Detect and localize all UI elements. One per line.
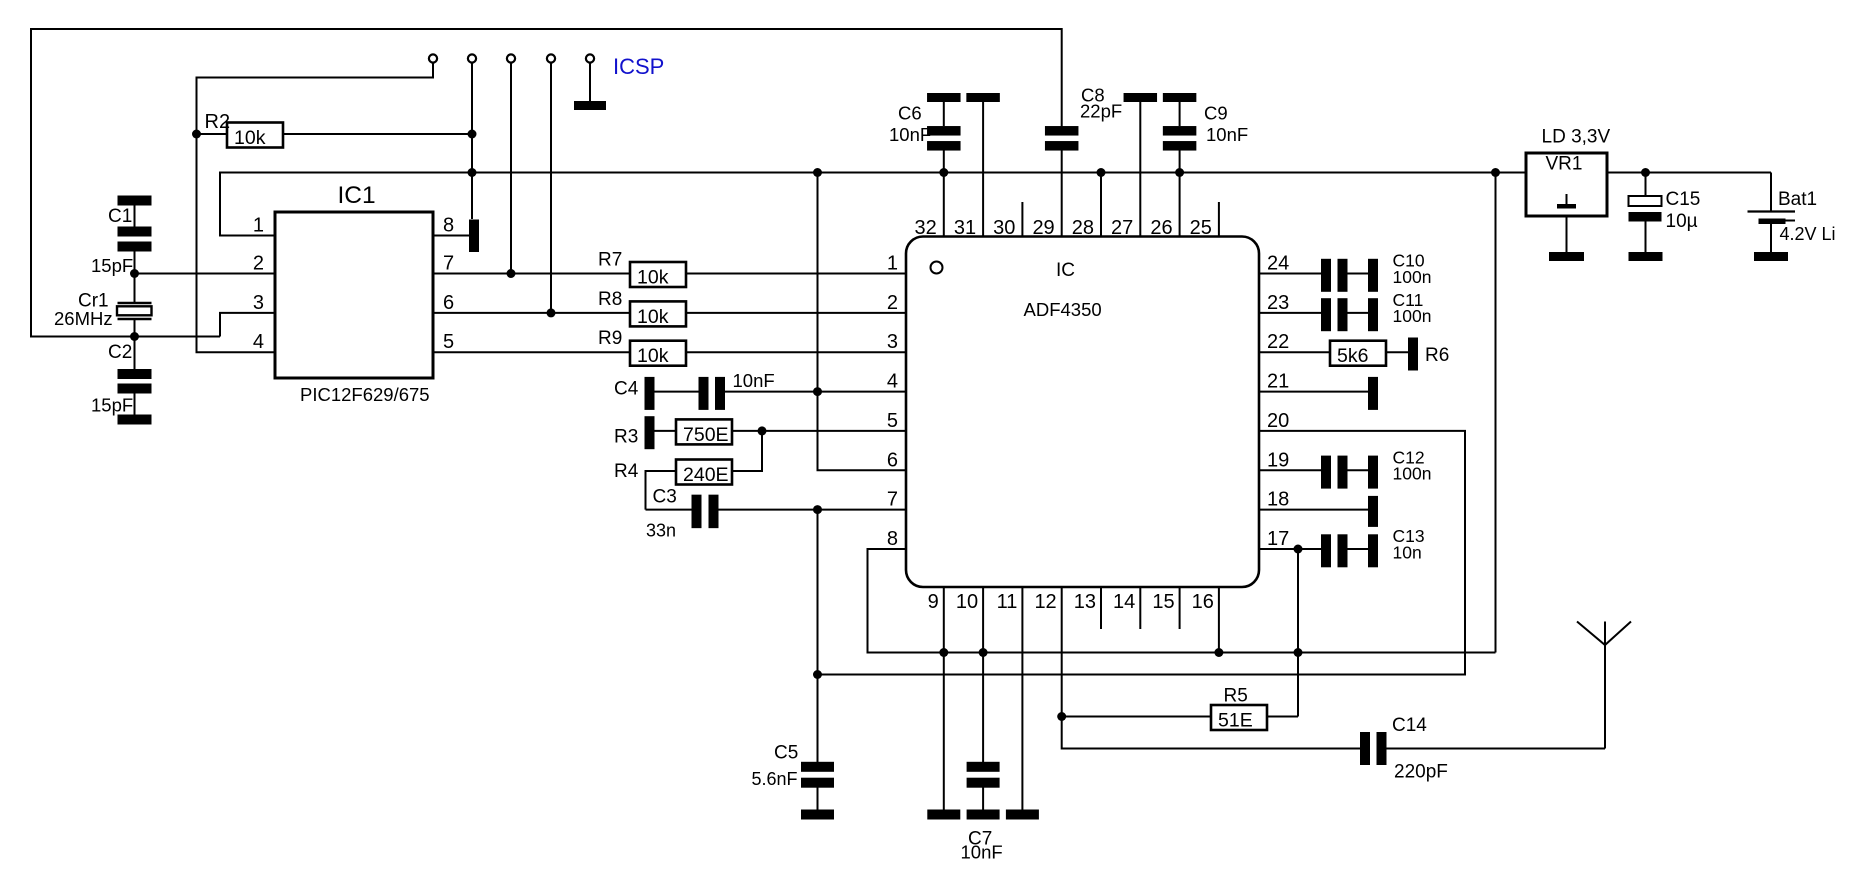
ground below VR1 — [1549, 252, 1584, 261]
svg-text:10k: 10k — [637, 306, 669, 328]
svg-text:R4: R4 — [614, 461, 639, 482]
wire R5 right — [1267, 716, 1298, 718]
wire 5k6 to bar — [1386, 351, 1408, 353]
ground ICSP — [574, 101, 606, 110]
ground right of C13 — [1368, 534, 1378, 567]
label C6 — [898, 103, 922, 124]
label C9 — [1204, 103, 1228, 124]
wire VR1 to battery — [1607, 172, 1771, 174]
pin ADF-4 number — [887, 371, 898, 393]
wire pin16 down — [1218, 587, 1220, 653]
pin1 marker circle — [931, 262, 943, 274]
wire R8 to ADF — [686, 312, 906, 314]
pin ADF-31 number — [954, 217, 976, 239]
power bar above C9 — [1163, 93, 1197, 102]
pin ADF-16 number — [1192, 591, 1214, 613]
wire C3 left — [646, 509, 692, 511]
pin ADF-11 number — [997, 591, 1018, 613]
ground below C5 — [801, 810, 834, 820]
label C1 value 15pF — [91, 255, 133, 276]
svg-text:19: 19 — [1267, 449, 1289, 471]
pin ADF-21 number — [1267, 371, 1289, 393]
capacitor C15 (electrolytic) — [1629, 196, 1662, 222]
svg-text:10: 10 — [956, 591, 978, 613]
pin IC1-5 number — [443, 331, 454, 353]
label Bat1 value 4.2V Li — [1780, 224, 1836, 244]
wire C10 to ground — [1348, 273, 1369, 275]
label C5 — [774, 743, 798, 764]
pin IC1-6 number — [443, 292, 454, 314]
svg-text:31: 31 — [954, 217, 976, 239]
wire line B to pin20 — [818, 431, 1466, 675]
svg-text:7: 7 — [887, 489, 898, 511]
regulator VR1 ground symbol — [1557, 194, 1576, 209]
node rail junction at pin28 riser — [1097, 168, 1106, 177]
svg-text:4: 4 — [253, 331, 264, 353]
svg-text:5: 5 — [443, 331, 454, 353]
svg-text:10n: 10n — [1393, 542, 1422, 562]
crystal Cr1 — [117, 303, 152, 319]
label C5 value 5.6nF — [752, 769, 798, 789]
wire C7 to ground — [982, 788, 984, 811]
svg-text:R8: R8 — [598, 289, 622, 310]
wire C6 to pin32 — [943, 151, 945, 237]
node XT1 junction — [130, 269, 139, 278]
node ICSP terminal 1 — [429, 54, 437, 62]
node junction C15 — [1641, 168, 1650, 177]
label LD 3,3V — [1542, 127, 1611, 148]
svg-text:12: 12 — [1034, 591, 1056, 613]
svg-text:16: 16 — [1192, 591, 1214, 613]
wire R4 left elbow — [646, 471, 677, 510]
svg-text:C14: C14 — [1392, 715, 1427, 736]
wire junction-crystal — [134, 274, 136, 304]
wire R7 to ADF — [686, 273, 906, 275]
wire ground riser (VR1 to line A) — [1495, 173, 1497, 653]
svg-text:22: 22 — [1267, 331, 1289, 353]
svg-text:15pF: 15pF — [91, 395, 133, 416]
node junction C3-riser — [813, 505, 822, 514]
svg-text:28: 28 — [1072, 217, 1094, 239]
resistor R7 — [630, 262, 686, 289]
pin ADF-26 number — [1150, 217, 1172, 239]
ic IC1 box — [275, 212, 433, 378]
svg-text:220pF: 220pF — [1394, 762, 1448, 783]
wire R3 to pin5 — [732, 430, 906, 432]
svg-text:15: 15 — [1152, 591, 1174, 613]
svg-text:750E: 750E — [683, 424, 729, 446]
svg-text:1: 1 — [887, 253, 898, 275]
label C10 value 100n — [1393, 267, 1432, 287]
wire C8 to pin29 — [1061, 151, 1063, 237]
ground below Bat1 — [1754, 252, 1788, 261]
wire C1-junction — [134, 252, 136, 274]
wire C11 to ground — [1348, 312, 1369, 314]
label C13 — [1393, 526, 1425, 546]
svg-text:3: 3 — [253, 292, 264, 314]
wire IC1 to R8 — [433, 312, 630, 314]
svg-text:8: 8 — [887, 528, 898, 550]
pin ADF-6 number — [887, 449, 898, 471]
label R3 — [614, 427, 638, 448]
ground right of C12 — [1368, 456, 1378, 489]
label C12 — [1393, 447, 1425, 467]
node rail junction at C6 — [939, 168, 948, 177]
pin ADF-19 number — [1267, 449, 1289, 471]
label C2 — [108, 342, 132, 363]
ground pin21 — [1368, 377, 1378, 410]
capacitor C9 — [1163, 126, 1197, 151]
svg-text:C1: C1 — [108, 206, 132, 227]
pin ADF-18 number — [1267, 489, 1289, 511]
wire pin28 riser — [1100, 173, 1102, 237]
power bar above C1 — [118, 196, 152, 206]
label R7 — [598, 250, 622, 271]
capacitor C5 — [801, 762, 834, 788]
wire pin to C11 — [1259, 312, 1321, 314]
capacitor C14 — [1360, 732, 1387, 765]
wire pin11 down — [1021, 587, 1023, 810]
svg-text:LD 3,3V: LD 3,3V — [1542, 127, 1611, 148]
capacitor C1 — [118, 227, 152, 252]
pin ADF-13 stub — [1100, 587, 1102, 629]
wire bar-C9 — [1179, 102, 1181, 126]
svg-text:IC: IC — [1056, 260, 1075, 281]
svg-text:26MHz: 26MHz — [54, 308, 113, 329]
label ADF4350 — [1024, 299, 1102, 320]
label Bat1 — [1778, 189, 1817, 210]
svg-text:R2: R2 — [205, 111, 231, 133]
label C9 value 10nF — [1206, 124, 1248, 145]
node junction C4-riser — [813, 387, 822, 396]
ground below pin11 — [1006, 810, 1039, 820]
svg-text:2: 2 — [253, 253, 264, 275]
ground below C2 — [118, 415, 152, 425]
node junction ICSP3-R7 — [507, 269, 516, 278]
wire battery to ground — [1770, 224, 1772, 252]
label C2 value 15pF — [91, 395, 133, 416]
wire crystal-to-pin3 step — [220, 313, 275, 337]
svg-text:R6: R6 — [1425, 345, 1449, 366]
svg-text:C9: C9 — [1204, 103, 1228, 124]
capacitor C8 — [1045, 126, 1079, 151]
pin ADF-17 number — [1267, 528, 1289, 550]
wire pin22 to R6 — [1259, 351, 1330, 353]
resistor R4 — [676, 460, 732, 487]
svg-text:33n: 33n — [646, 521, 676, 541]
pin ADF-13 number — [1074, 591, 1096, 613]
svg-text:240E: 240E — [683, 464, 729, 486]
node ICSP terminal 4 — [547, 54, 555, 62]
node junction R2 right — [468, 130, 477, 139]
wire R9 to ADF — [686, 351, 906, 353]
svg-text:29: 29 — [1032, 217, 1054, 239]
svg-text:10k: 10k — [637, 267, 669, 289]
label C3 value 33n — [646, 521, 676, 541]
node rail junction at C9 — [1175, 168, 1184, 177]
svg-text:18: 18 — [1267, 489, 1289, 511]
label C15 value 10µ — [1666, 211, 1698, 232]
svg-text:25: 25 — [1190, 217, 1212, 239]
resistor R6 5k6 — [1330, 341, 1386, 368]
wire R3 left — [655, 430, 677, 432]
label C3 — [653, 487, 677, 508]
pin ADF-27 number — [1111, 217, 1133, 239]
resistor R9 — [630, 341, 686, 368]
pin ADF-5 number — [887, 410, 898, 432]
capacitor C4 — [699, 377, 726, 410]
wire bar to pin27 — [1139, 102, 1141, 237]
wire R2 left stub — [197, 133, 228, 135]
label C6 value 10nF — [889, 124, 931, 145]
wire R2 right — [284, 133, 472, 135]
label VR1 — [1546, 154, 1583, 175]
label Cr1 value 26MHz — [54, 308, 113, 329]
label C14 value 220pF — [1394, 762, 1448, 783]
ground below C15 — [1629, 252, 1663, 261]
svg-text:30: 30 — [993, 217, 1015, 239]
node junction R3-R4 — [758, 426, 767, 435]
node rail junction at VR1 output — [1491, 168, 1500, 177]
pin ADF-28 number — [1072, 217, 1094, 239]
regulator VR1 box — [1526, 153, 1607, 216]
label C1 — [108, 206, 132, 227]
pin ADF-25 number — [1190, 217, 1212, 239]
node junction pin17 — [1294, 545, 1303, 554]
svg-text:IC1: IC1 — [338, 182, 376, 209]
pin ADF-7 number — [887, 489, 898, 511]
svg-text:PIC12F629/675: PIC12F629/675 — [300, 384, 430, 405]
svg-text:27: 27 — [1111, 217, 1133, 239]
wire pin10 down — [982, 587, 984, 762]
wire bar-C6 — [943, 102, 945, 126]
ground right of C10 — [1368, 259, 1378, 292]
svg-text:10nF: 10nF — [1206, 124, 1248, 145]
label C12 value 100n — [1393, 464, 1432, 484]
label C11 — [1393, 290, 1424, 310]
power bar above C6 — [927, 93, 961, 102]
label C8 — [1081, 85, 1105, 106]
node ICSP terminal 2 — [468, 54, 476, 62]
wire rail-to-pin6 riser — [818, 173, 907, 471]
svg-text:Bat1: Bat1 — [1778, 189, 1817, 210]
svg-text:22pF: 22pF — [1080, 101, 1122, 122]
svg-text:10nF: 10nF — [889, 124, 931, 145]
node ICSP terminal 3 — [507, 54, 515, 62]
wire junction2-C2 — [134, 337, 136, 370]
wire IC1 pin8 stub — [433, 235, 470, 237]
antenna — [1577, 622, 1631, 749]
ground below C7 — [967, 810, 1000, 820]
label C7 value 10nF — [961, 842, 1003, 863]
svg-text:100n: 100n — [1393, 267, 1432, 287]
ground left of C4 — [645, 377, 655, 410]
capacitor C11 — [1321, 298, 1348, 331]
svg-text:ICSP: ICSP — [613, 54, 664, 79]
svg-text:5: 5 — [887, 410, 898, 432]
wire R4 riser — [732, 431, 762, 471]
node rail junction at pin6 riser — [813, 168, 822, 177]
pin IC1-8 number — [443, 215, 454, 237]
resistor R8 — [630, 301, 686, 328]
label ICSP — [613, 54, 664, 79]
node junction pin10-lineA — [979, 648, 988, 657]
pin ADF-2 number — [887, 292, 898, 314]
svg-text:10nF: 10nF — [961, 842, 1003, 863]
svg-text:2: 2 — [887, 292, 898, 314]
wire top border loop (C8 top to left border to crystal net) — [31, 29, 1062, 337]
ground pin18 — [1368, 496, 1378, 527]
label C13 value 10n — [1393, 542, 1422, 562]
label R5 — [1224, 686, 1248, 707]
pin ADF-24 number — [1267, 253, 1289, 275]
svg-text:3: 3 — [887, 331, 898, 353]
label R8 — [598, 289, 622, 310]
wire ICSP pin2 riser — [471, 63, 473, 220]
pin ADF-1 number — [887, 253, 898, 275]
label C10 — [1393, 251, 1425, 271]
wire C3 to pin7 — [719, 509, 907, 511]
pin ADF-10 number — [956, 591, 978, 613]
wire pin to C10 — [1259, 273, 1321, 275]
battery Bat1 — [1748, 212, 1796, 225]
wire 3.3V rail (IC1 pin1 to VR1) — [220, 173, 1526, 236]
wire C4 to pin4 — [725, 391, 906, 393]
pin ADF-15 number — [1152, 591, 1174, 613]
pin ADF-30 stub — [1021, 202, 1023, 237]
wire C5 top — [817, 675, 819, 763]
svg-text:ADF4350: ADF4350 — [1024, 299, 1102, 320]
wire ICSP pin5 stub — [589, 63, 591, 102]
pin ADF-32 number — [915, 217, 937, 239]
node junction R2 left — [192, 130, 201, 139]
pin ADF-20 number — [1267, 410, 1289, 432]
svg-text:4: 4 — [887, 371, 898, 393]
wire bar to pin31 — [982, 102, 984, 237]
pin ADF-29 number — [1032, 217, 1054, 239]
pin ADF-25 stub — [1218, 202, 1220, 237]
node junction pin9-lineA — [939, 648, 948, 657]
svg-text:11: 11 — [997, 591, 1018, 613]
pin IC1-1 number — [253, 215, 264, 237]
ground below pin9 — [927, 810, 960, 820]
wire pin8 elbow + ground line A — [868, 549, 1496, 653]
svg-text:8: 8 — [443, 215, 454, 237]
pin ADF-9 number — [928, 591, 939, 613]
label R6 — [1425, 345, 1449, 366]
svg-text:C5: C5 — [774, 743, 798, 764]
svg-text:C4: C4 — [614, 379, 639, 400]
wire R5 left — [1062, 716, 1211, 718]
wire C2-ground — [134, 394, 136, 416]
svg-text:R5: R5 — [1224, 686, 1248, 707]
label C14 — [1392, 715, 1427, 736]
node junction pin16-lineA — [1214, 648, 1223, 657]
svg-text:26: 26 — [1150, 217, 1172, 239]
label R2 — [205, 111, 231, 133]
wire C9 to pin26 — [1179, 151, 1181, 237]
svg-text:17: 17 — [1267, 528, 1289, 550]
svg-text:9: 9 — [928, 591, 939, 613]
ground left of R3 — [645, 416, 655, 449]
wire pin17 riser down — [1297, 549, 1299, 717]
wire bar-C1 — [134, 205, 136, 227]
wire pin9 down — [943, 587, 945, 810]
power bar above pin27 — [1124, 93, 1158, 102]
wire IC1 to R9 — [433, 351, 630, 353]
label IC — [1056, 260, 1075, 281]
svg-text:24: 24 — [1267, 253, 1289, 275]
svg-text:C2: C2 — [108, 342, 132, 363]
svg-text:5.6nF: 5.6nF — [752, 769, 798, 789]
wire C5 bottom — [817, 788, 819, 811]
wire pin18 stub — [1259, 509, 1368, 511]
svg-text:100n: 100n — [1393, 306, 1432, 326]
node junction R5-pin12 — [1057, 712, 1066, 721]
capacitor C6 — [927, 126, 961, 151]
capacitor C13 — [1321, 534, 1348, 567]
label IC1 — [338, 182, 376, 209]
power bar IC1 pin8 — [469, 220, 479, 253]
wire IC1 pin2 — [135, 273, 276, 275]
ground right of C11 — [1368, 298, 1378, 331]
wire pin21 stub — [1259, 391, 1368, 393]
svg-text:6: 6 — [887, 449, 898, 471]
svg-text:5k6: 5k6 — [1337, 345, 1368, 367]
svg-text:C6: C6 — [898, 103, 922, 124]
power bar R6 — [1408, 338, 1418, 371]
label C7 — [968, 829, 992, 850]
svg-text:C3: C3 — [653, 487, 677, 508]
label C15 — [1666, 189, 1701, 210]
svg-text:10k: 10k — [234, 127, 266, 149]
svg-text:15pF: 15pF — [91, 255, 133, 276]
svg-text:VR1: VR1 — [1546, 154, 1583, 175]
pin IC1-7 number — [443, 253, 454, 275]
resistor R3 — [676, 419, 732, 446]
node ICSP terminal 5 — [586, 54, 594, 62]
capacitor C12 — [1321, 456, 1348, 489]
pin ADF-12 number — [1034, 591, 1056, 613]
node junction ICSP4-R8 — [547, 308, 556, 317]
wire pin7-to-lineB riser — [817, 510, 819, 675]
wire IC1 to R7 — [433, 273, 630, 275]
svg-text:23: 23 — [1267, 292, 1289, 314]
wire C15 top — [1645, 173, 1647, 197]
pin IC1-2 number — [253, 253, 264, 275]
pin ADF-8 number — [887, 528, 898, 550]
ic ADF4350 box — [906, 237, 1259, 588]
svg-text:20: 20 — [1267, 410, 1289, 432]
wire pin to C13 — [1259, 548, 1321, 550]
label C8 value 22pF — [1080, 101, 1122, 122]
label Cr1 — [78, 291, 109, 312]
node junction pin17riser-lineA — [1294, 648, 1303, 657]
pin ADF-14 stub — [1139, 587, 1141, 629]
pin ADF-23 number — [1267, 292, 1289, 314]
svg-text:10µ: 10µ — [1666, 211, 1698, 232]
pin IC1-3 number — [253, 292, 264, 314]
pin ADF-3 number — [887, 331, 898, 353]
svg-text:10k: 10k — [637, 345, 669, 367]
wire ICSP pin3 riser — [510, 63, 512, 274]
svg-text:R7: R7 — [598, 250, 622, 271]
pin ADF-14 number — [1113, 591, 1135, 613]
wire VR1 to ground — [1566, 216, 1568, 252]
svg-text:13: 13 — [1074, 591, 1096, 613]
wire C15 to ground — [1645, 222, 1647, 253]
svg-text:4.2V Li: 4.2V Li — [1780, 224, 1836, 244]
